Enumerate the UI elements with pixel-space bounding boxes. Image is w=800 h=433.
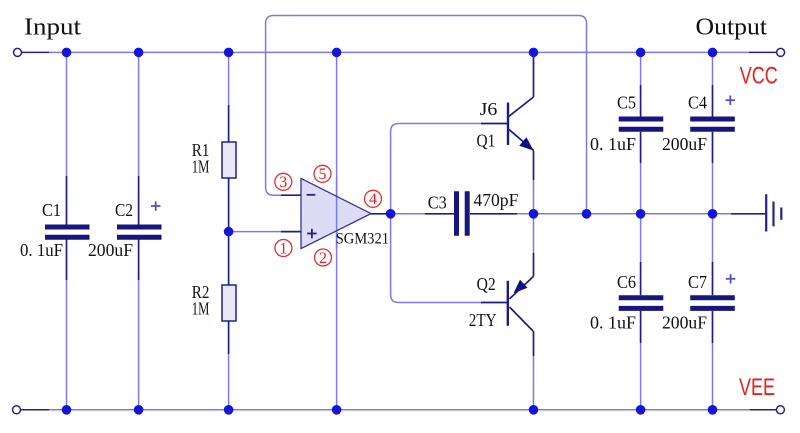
capacitor C6 <box>590 262 663 343</box>
junction dots top rail <box>62 48 718 58</box>
resistor R1 <box>192 105 236 232</box>
svg-text:200uF: 200uF <box>662 134 707 154</box>
svg-text:1M: 1M <box>192 299 210 319</box>
transistor Q2 (2TY, PNP) <box>481 253 534 356</box>
svg-text:C7: C7 <box>688 272 707 292</box>
svg-text:Output: Output <box>696 14 768 40</box>
capacitor C5 <box>590 85 663 163</box>
wire plus input <box>229 231 281 233</box>
svg-text:1M: 1M <box>192 156 210 176</box>
junction dots mid rail <box>386 209 717 219</box>
pin label 3 <box>275 173 292 191</box>
capacitor C3 <box>391 190 519 236</box>
wire feedback loop <box>266 16 587 214</box>
capacitor C4 <box>662 85 735 163</box>
terminal bottom left <box>13 406 21 414</box>
pin label 2 <box>315 249 332 267</box>
svg-text:0. 1uF: 0. 1uF <box>590 313 636 333</box>
svg-text:2TY: 2TY <box>469 310 497 330</box>
wire mid to Q2 emitter <box>533 214 535 253</box>
wire C2 column <box>138 52 140 409</box>
svg-text:C1: C1 <box>42 200 61 220</box>
wire input stub <box>22 51 50 53</box>
svg-text:Q1: Q1 <box>477 130 496 150</box>
wire Q2 collector to bottom rail <box>533 356 535 410</box>
op-amp output pin 4 <box>371 213 391 215</box>
terminal input <box>14 48 22 56</box>
svg-text:J6: J6 <box>480 99 498 119</box>
wire C4 C7 column <box>712 52 714 409</box>
pin label 5 <box>314 165 331 183</box>
wire C5 C6 column <box>640 52 642 409</box>
wire bottom right stub <box>750 409 776 411</box>
wire mid rail <box>517 213 731 215</box>
wire top rail VCC <box>49 51 749 53</box>
wire bottom left stub <box>21 409 50 411</box>
svg-text:VCC: VCC <box>740 63 778 90</box>
wire C1 column <box>66 52 68 409</box>
svg-text:0. 1uF: 0. 1uF <box>590 134 636 154</box>
svg-text:Input: Input <box>24 15 81 41</box>
svg-text:C4: C4 <box>688 93 707 113</box>
op-amp minus input pin 3 <box>281 194 301 196</box>
svg-text:200uF: 200uF <box>88 240 133 260</box>
svg-text:C2: C2 <box>115 200 133 220</box>
svg-text:C6: C6 <box>617 272 636 292</box>
wire R column <box>228 52 230 409</box>
svg-text:Q2: Q2 <box>477 274 496 294</box>
pin label 1 <box>275 240 292 258</box>
terminal bottom right <box>776 406 784 414</box>
svg-text:200uF: 200uF <box>662 313 707 333</box>
wire transistor base loop <box>391 124 481 303</box>
wire op-amp power column <box>336 52 338 409</box>
resistor R2 <box>192 232 236 354</box>
svg-text:3: 3 <box>279 174 287 191</box>
transistor Q1 (J6, NPN) <box>481 52 534 180</box>
svg-text:SGM321: SGM321 <box>336 231 389 248</box>
capacitor C2 <box>88 176 162 280</box>
svg-text:4: 4 <box>369 191 377 208</box>
svg-text:2: 2 <box>319 250 327 267</box>
node R1 R2 junction <box>224 227 234 237</box>
svg-text:5: 5 <box>319 166 327 183</box>
svg-text:1: 1 <box>279 240 287 257</box>
junction dots bottom rail <box>62 405 718 415</box>
svg-text:0. 1uF: 0. 1uF <box>20 240 63 260</box>
capacitor C1 <box>20 176 90 280</box>
wire output stub <box>749 51 777 53</box>
svg-text:470pF: 470pF <box>473 190 518 210</box>
pin label 4 <box>365 190 382 208</box>
svg-text:C5: C5 <box>617 93 636 113</box>
terminal output <box>777 48 785 56</box>
wire bottom rail VEE <box>49 409 750 411</box>
svg-text:C3: C3 <box>428 192 447 212</box>
op-amp plus input pin 1 <box>281 231 301 233</box>
ground <box>731 194 781 231</box>
svg-text:VEE: VEE <box>739 374 775 401</box>
capacitor C7 <box>662 262 735 343</box>
op-amp U1 SGM321 <box>301 178 389 248</box>
wire Q1 emitter to mid <box>533 180 535 214</box>
